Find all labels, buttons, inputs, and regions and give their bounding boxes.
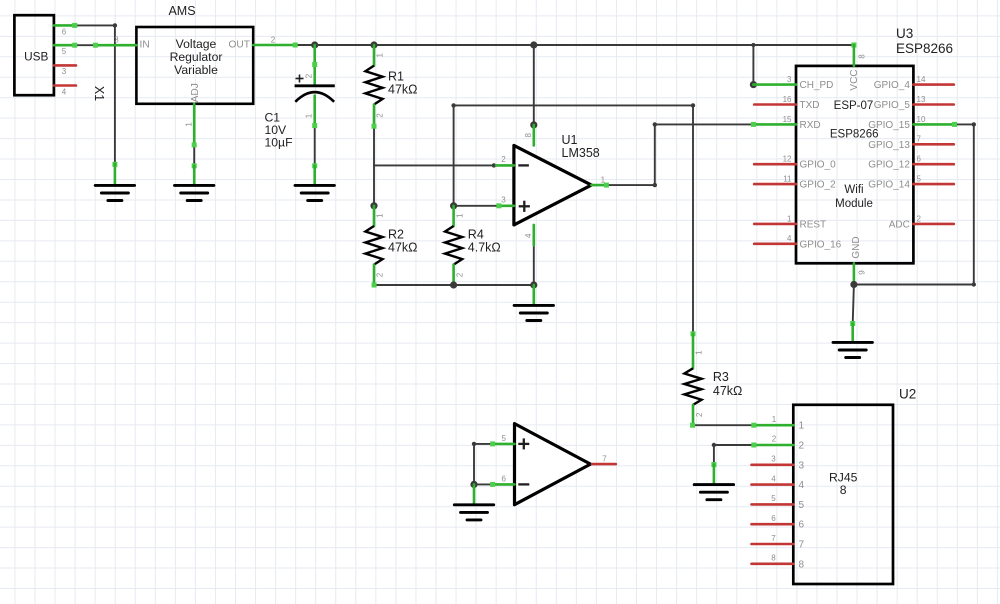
wire bottom node R2/R4/U1 pin4: [374, 284, 534, 286]
wire U1 pin4 to ground: [533, 245, 535, 285]
bendpoint: [492, 163, 496, 167]
svg-text:7: 7: [771, 534, 776, 543]
svg-text:1: 1: [455, 213, 464, 218]
svg-text:Voltage: Voltage: [176, 37, 217, 51]
resistor R3: [684, 331, 742, 427]
capacitor C1: [265, 45, 335, 150]
svg-text:2: 2: [772, 435, 777, 444]
svg-text:ADC: ADC: [889, 219, 910, 230]
svg-text:1: 1: [376, 213, 385, 218]
wire AMS ADJ to ground: [193, 145, 195, 166]
svg-text:9: 9: [858, 270, 867, 275]
svg-text:2: 2: [501, 155, 506, 164]
svg-text:10µF: 10µF: [265, 136, 293, 150]
svg-text:GPIO_14: GPIO_14: [868, 180, 910, 191]
resistor R2: [365, 202, 417, 287]
bendpoint: [113, 23, 117, 27]
bendpoint: [472, 442, 476, 446]
svg-text:1: 1: [787, 214, 792, 223]
svg-text:3: 3: [114, 35, 119, 44]
svg-text:ADJ: ADJ: [190, 83, 201, 102]
svg-text:5: 5: [917, 175, 922, 184]
bendpoint: [653, 122, 657, 126]
svg-text:8: 8: [858, 54, 867, 59]
svg-text:R4: R4: [468, 227, 484, 241]
wire node to U1 IN+: [454, 205, 499, 207]
svg-text:ESP8266: ESP8266: [830, 129, 879, 141]
svg-text:OUT: OUT: [228, 40, 250, 51]
svg-text:3: 3: [771, 455, 776, 464]
svg-text:GPIO_0: GPIO_0: [800, 160, 837, 171]
module U3 ESP8266: [750, 45, 957, 285]
svg-text:2: 2: [455, 272, 464, 277]
bendpoint: [972, 122, 976, 126]
svg-text:5: 5: [771, 494, 776, 503]
ground symbol (ADJ net): [175, 185, 214, 200]
svg-text:U2: U2: [899, 387, 916, 402]
wire RJ45 pin2 to ground (vert): [713, 445, 715, 465]
svg-text:U1: U1: [562, 133, 578, 147]
svg-text:USB: USB: [24, 50, 48, 64]
svg-text:5: 5: [501, 434, 506, 443]
ground symbol (C1 net): [295, 185, 334, 200]
svg-text:14: 14: [917, 75, 926, 84]
svg-text:13: 13: [917, 95, 926, 104]
svg-text:U3: U3: [896, 26, 913, 41]
ground symbol (ESP GND net): [833, 342, 872, 357]
svg-text:ESP8266: ESP8266: [896, 41, 953, 56]
svg-text:7: 7: [917, 135, 922, 144]
wire GPIO_15 (horiz): [955, 123, 974, 125]
ground symbol (USB net): [95, 185, 134, 200]
wire GPIO_15 (vert): [973, 124, 975, 284]
ground symbol (op-amp2 net): [454, 505, 493, 520]
junction U1 pin4/ground: [530, 281, 537, 288]
wire op-amp2 IN- to ground: [474, 483, 493, 485]
ground (U1 pin4 net): [532, 285, 535, 305]
wire to R3 (horiz): [454, 104, 693, 106]
svg-text:X1: X1: [92, 86, 106, 101]
svg-text:2: 2: [799, 441, 805, 452]
svg-text:47kΩ: 47kΩ: [713, 384, 743, 398]
wire ESP GND to ground: [853, 285, 854, 324]
svg-text:8: 8: [840, 483, 847, 497]
wire R3 to RJ45 pin1: [693, 424, 754, 426]
junction rail/U1 pin8: [530, 41, 537, 48]
svg-text:Variable: Variable: [174, 63, 218, 77]
svg-text:3: 3: [501, 196, 506, 205]
svg-text:2: 2: [917, 214, 922, 223]
resistor R4: [445, 202, 501, 285]
wire feedback vertical: [453, 105, 455, 205]
wire C1 to ground: [314, 126, 316, 166]
wire R1 bottom to R2 top: [373, 126, 375, 206]
connector X1 USB: [14, 15, 77, 96]
junction rail/CH_PD: [751, 43, 755, 47]
svg-text:16: 16: [783, 95, 792, 104]
svg-text:GPIO_4: GPIO_4: [874, 80, 911, 91]
svg-text:GPIO_2: GPIO_2: [800, 180, 837, 191]
svg-text:GPIO_5: GPIO_5: [874, 100, 911, 111]
svg-text:VCC: VCC: [849, 69, 860, 90]
ground (ESP GND net): [850, 281, 857, 342]
wire USB pin6 to ground (horiz): [75, 24, 115, 26]
bendpoint: [691, 103, 695, 107]
svg-text:4.7kΩ: 4.7kΩ: [468, 240, 501, 254]
svg-text:5: 5: [62, 47, 67, 56]
wire to R3 (vert): [692, 105, 694, 333]
svg-text:4: 4: [62, 87, 67, 96]
svg-text:2: 2: [376, 113, 385, 118]
bendpoint: [451, 103, 455, 107]
ground (ADJ net): [192, 163, 197, 185]
svg-text:1: 1: [799, 421, 805, 432]
svg-text:6: 6: [917, 155, 922, 164]
op-amp U1 LM358: [496, 121, 609, 245]
wire RJ45 pin2 to ground (horiz): [714, 444, 754, 446]
svg-text:6: 6: [62, 27, 67, 36]
svg-text:R2: R2: [388, 227, 404, 241]
svg-text:6: 6: [501, 475, 506, 484]
svg-text:3: 3: [787, 75, 792, 84]
svg-text:2: 2: [695, 412, 704, 417]
ground (USB net): [112, 162, 117, 185]
svg-text:3: 3: [62, 67, 67, 76]
svg-text:Wifi: Wifi: [844, 184, 863, 196]
svg-text:10: 10: [917, 115, 926, 124]
svg-text:LM358: LM358: [562, 146, 600, 160]
wire op-amp2 IN+ (horiz): [474, 443, 493, 445]
bendpoint: [653, 183, 657, 187]
svg-text:11: 11: [783, 175, 792, 184]
svg-text:4: 4: [771, 474, 776, 483]
wire top rail: AMS OUT to ESP VCC: [295, 44, 854, 46]
ground (RJ45 pin2 net): [711, 462, 716, 484]
bendpoint: [712, 443, 716, 447]
svg-text:Module: Module: [835, 198, 873, 210]
svg-text:15: 15: [783, 115, 792, 124]
wire divider node to U1 IN-: [374, 164, 494, 166]
svg-text:47kΩ: 47kΩ: [388, 83, 418, 97]
svg-text:2: 2: [304, 73, 313, 78]
connector U2 RJ45: [751, 405, 893, 584]
junction rail/C1: [311, 41, 318, 48]
svg-text:1: 1: [695, 350, 704, 355]
svg-text:7: 7: [602, 454, 607, 463]
voltage regulator AMS: [93, 4, 298, 148]
bendpoint: [972, 282, 976, 286]
svg-text:3: 3: [799, 460, 805, 471]
svg-text:GPIO_13: GPIO_13: [868, 140, 910, 151]
wire U1 out (vert): [654, 124, 656, 185]
svg-text:5: 5: [799, 500, 805, 511]
svg-text:2: 2: [271, 35, 276, 44]
wire U1 out (horiz): [606, 184, 654, 186]
svg-text:8: 8: [799, 559, 805, 570]
ground (C1 net): [312, 163, 317, 185]
svg-text:CH_PD: CH_PD: [800, 80, 834, 91]
svg-text:12: 12: [783, 155, 792, 164]
svg-text:1: 1: [304, 113, 313, 118]
svg-text:RXD: RXD: [800, 120, 821, 131]
svg-text:4: 4: [787, 234, 792, 243]
op-amp U1 part B: [490, 424, 616, 505]
bend VCC corner: [851, 43, 856, 48]
svg-text:4: 4: [524, 233, 533, 238]
svg-text:2: 2: [376, 272, 385, 277]
svg-text:6: 6: [771, 514, 776, 523]
svg-text:7: 7: [799, 540, 805, 551]
wire USB pin5 to AMS IN: [75, 44, 96, 46]
svg-text:R1: R1: [388, 70, 404, 84]
svg-text:1: 1: [601, 176, 606, 185]
svg-text:Regulator: Regulator: [170, 50, 223, 64]
junction R4/bottom net: [450, 281, 457, 288]
ground symbol (RJ45 pin2 net): [694, 485, 733, 500]
wire rail to ESP CH_PD: [752, 45, 754, 85]
svg-text:TXD: TXD: [800, 100, 820, 111]
svg-text:1: 1: [772, 415, 777, 424]
wire rail to U1 pin8: [533, 45, 535, 125]
svg-text:47kΩ: 47kΩ: [388, 240, 418, 254]
svg-text:IN: IN: [140, 40, 150, 51]
ground symbol (U1 pin4 net): [514, 305, 553, 320]
svg-text:8: 8: [524, 133, 533, 138]
wire U1 out to ESP RXD: [655, 123, 754, 125]
svg-text:AMS: AMS: [168, 4, 195, 18]
svg-text:6: 6: [799, 520, 805, 531]
svg-text:1: 1: [376, 53, 385, 58]
svg-text:ESP-07: ESP-07: [834, 100, 874, 112]
wire op-amp2 IN+ (vert): [473, 444, 475, 485]
svg-text:REST: REST: [800, 219, 827, 230]
svg-text:R3: R3: [713, 370, 729, 384]
svg-text:GND: GND: [851, 236, 862, 258]
resistor R1: [365, 45, 417, 129]
wire USB pin6 to ground (vert): [114, 25, 116, 164]
ground (op-amp2 net): [470, 481, 477, 505]
svg-text:4: 4: [799, 480, 805, 491]
junction rail/R1: [370, 41, 377, 48]
svg-text:8: 8: [771, 554, 776, 563]
svg-text:GPIO_12: GPIO_12: [868, 160, 910, 171]
svg-text:1: 1: [185, 122, 194, 127]
svg-text:GPIO_16: GPIO_16: [800, 239, 842, 250]
wire GPIO_15 to GND node: [854, 284, 974, 286]
